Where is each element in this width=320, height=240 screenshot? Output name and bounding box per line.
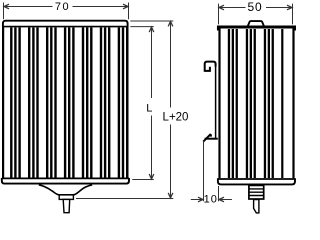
front view bottom cap top line <box>2 177 129 179</box>
side view left wall <box>218 27 220 178</box>
side view bottom cap top line <box>218 178 295 180</box>
front view right wall <box>126 27 128 178</box>
dimension 70 line <box>4 3 129 20</box>
svg-text:50: 50 <box>248 0 263 14</box>
svg-text:70: 70 <box>55 1 70 13</box>
gland collar <box>59 195 73 200</box>
dimension L+20 extension lines <box>76 21 173 199</box>
dimension 10 extension lines <box>191 141 232 201</box>
svg-text:L+20: L+20 <box>163 112 189 124</box>
front view fins <box>10 28 128 178</box>
front view bottom cap <box>2 178 129 184</box>
front view top cap <box>3 21 128 27</box>
gland stem <box>63 199 69 212</box>
side view gland block <box>249 185 264 199</box>
side view right wall <box>292 27 294 178</box>
DIN clip arm <box>215 63 217 138</box>
front view left wall <box>2 27 4 178</box>
DIN clip upper hook <box>205 62 216 72</box>
side view fins <box>228 29 284 178</box>
cable gland dome <box>39 185 92 195</box>
dimension L arrowheads <box>149 27 154 179</box>
dimension 10 arrowheads <box>198 197 224 202</box>
svg-text:10: 10 <box>204 194 218 206</box>
side view gland block ribs <box>249 189 264 196</box>
side view pin <box>254 200 259 213</box>
side view top edge <box>218 27 294 31</box>
svg-text:L: L <box>146 102 152 114</box>
dimension 50 line <box>219 4 293 25</box>
DIN clip lower foot catch <box>203 134 211 142</box>
dimension 50 arrowheads <box>219 5 292 10</box>
dimension L extension lines <box>130 27 154 180</box>
side view top tab <box>248 21 265 26</box>
DIN clip lower foot <box>205 138 218 140</box>
DIN clip upper hook foot <box>205 67 210 71</box>
front view top cap bottom line <box>3 26 128 28</box>
side view bottom cap <box>218 178 295 184</box>
dimension 70 arrowheads <box>4 4 128 9</box>
dimension L+20 arrowheads <box>168 21 173 198</box>
